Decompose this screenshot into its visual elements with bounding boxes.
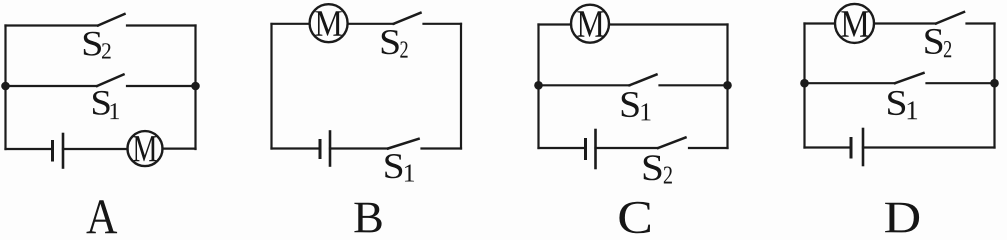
circuit A top wire right segment bbox=[127, 24, 196, 26]
circuit A middle wire right segment bbox=[127, 85, 196, 87]
circuit D top wire right segment bbox=[967, 22, 995, 24]
circuit A frame: right wire bbox=[194, 26, 196, 150]
circuit D middle wire right segment bbox=[927, 82, 995, 84]
battery short plate (circuit B) bbox=[319, 141, 322, 158]
motor M letter (circuit D) bbox=[841, 11, 868, 37]
label S2 (circuit B) bbox=[382, 30, 408, 58]
node dot right (circuit C) bbox=[723, 81, 732, 90]
circuit C middle wire right segment bbox=[660, 84, 728, 86]
circuit C bottom wire left segment bbox=[539, 147, 586, 149]
circuit B bottom wire right segment bbox=[422, 147, 462, 149]
motor M circle (circuit D) bbox=[835, 4, 874, 43]
circuit C top wire left segment bbox=[539, 23, 572, 25]
circuit D top wire middle segment bbox=[875, 22, 937, 24]
motor M circle (circuit B) bbox=[310, 4, 348, 42]
node dot right (circuit A) bbox=[191, 82, 200, 91]
switch S2 blade (circuit C) bbox=[658, 138, 686, 149]
motor M circle (circuit C) bbox=[571, 5, 609, 43]
node dot left (circuit A) bbox=[1, 82, 10, 91]
battery short plate (circuit C) bbox=[584, 140, 587, 159]
circuit D top wire left segment bbox=[805, 22, 835, 24]
circuit B top wire right segment bbox=[424, 23, 462, 25]
circuit C frame: left wire bbox=[537, 25, 539, 149]
circuit D frame: right wire bbox=[993, 24, 995, 148]
answer letter D bbox=[885, 203, 919, 233]
switch S1 blade (circuit A) bbox=[97, 75, 124, 87]
label S1 (circuit C) bbox=[622, 92, 651, 120]
circuit A top wire left segment bbox=[6, 24, 99, 26]
battery long plate (circuit B) bbox=[329, 132, 332, 166]
circuit C middle wire left segment bbox=[539, 84, 630, 86]
battery short plate (circuit D) bbox=[850, 139, 853, 158]
circuit D frame: left wire bbox=[803, 24, 805, 148]
circuit C frame: right wire bbox=[726, 25, 728, 149]
circuit A bottom wire right segment bbox=[163, 148, 196, 150]
motor M letter (circuit A) bbox=[133, 136, 156, 161]
circuit A bottom wire middle segment bbox=[63, 148, 128, 150]
battery long plate (circuit D) bbox=[862, 129, 865, 165]
label S1 (circuit B) bbox=[385, 154, 414, 181]
label S2 (circuit D) bbox=[925, 29, 951, 57]
battery long plate (circuit A) bbox=[62, 134, 65, 168]
circuit B bottom wire middle segment bbox=[330, 147, 388, 149]
circuit C bottom wire right segment bbox=[689, 147, 728, 149]
circuit A middle wire left segment bbox=[6, 85, 98, 87]
circuit D bottom wire right segment bbox=[863, 146, 995, 148]
switch S1 blade (circuit C) bbox=[630, 75, 657, 86]
switch S2 blade (circuit A) bbox=[98, 14, 125, 26]
battery long plate (circuit C) bbox=[594, 130, 597, 168]
circuit B top wire middle segment bbox=[349, 23, 394, 25]
node dot left (circuit D) bbox=[800, 79, 809, 88]
circuit A bottom wire left segment bbox=[6, 148, 53, 150]
switch S1 blade (circuit B) bbox=[388, 139, 419, 149]
node dot left (circuit C) bbox=[534, 81, 543, 90]
label S1 (circuit A) bbox=[93, 91, 119, 119]
label S2 (circuit C) bbox=[644, 155, 672, 183]
label S1 (circuit D) bbox=[888, 91, 917, 119]
answer letter C bbox=[619, 202, 650, 233]
circuit C bottom wire middle segment bbox=[596, 147, 659, 149]
circuit B frame: left wire bbox=[270, 24, 272, 149]
circuit B frame: right wire bbox=[460, 24, 462, 149]
answer letter A bbox=[86, 200, 117, 233]
node dot right (circuit D) bbox=[990, 79, 999, 88]
circuit B top wire left segment bbox=[272, 23, 309, 25]
answer letter B bbox=[354, 203, 381, 233]
circuit D middle wire left segment bbox=[805, 82, 896, 84]
label S2 (circuit A) bbox=[84, 32, 111, 59]
switch S1 blade (circuit D) bbox=[895, 73, 924, 83]
circuit B bottom wire left segment bbox=[272, 147, 321, 149]
circuit C top wire right segment bbox=[609, 23, 728, 25]
motor M letter (circuit B) bbox=[315, 11, 342, 36]
circuit A frame: left wire bbox=[4, 26, 6, 150]
battery short plate (circuit A) bbox=[51, 142, 54, 161]
switch S2 blade (circuit B) bbox=[394, 13, 421, 24]
motor M letter (circuit C) bbox=[577, 11, 604, 37]
motor M circle (circuit A) bbox=[128, 131, 163, 166]
circuit D bottom wire left segment bbox=[805, 146, 852, 148]
switch S2 blade (circuit D) bbox=[936, 12, 964, 24]
